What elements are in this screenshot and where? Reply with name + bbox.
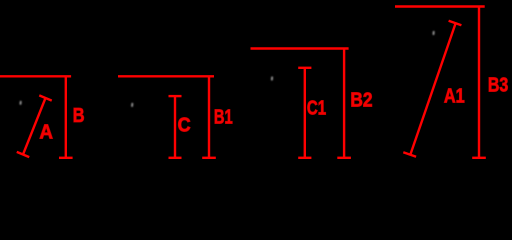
wire bottom cap of C [169,157,182,159]
svg-text:C1: C1 [307,98,326,120]
svg-text:B3: B3 [488,75,508,97]
wire vertical segment C1 [304,68,306,158]
svg-text:C: C [178,115,191,137]
node mark 4 [432,31,434,35]
wire top cap of C [169,95,182,97]
svg-text:B1: B1 [214,107,233,129]
wire bottom cap of C1 [298,157,311,159]
wire horizontal line H4 [395,5,485,7]
wire bottom cap of B [59,157,73,159]
svg-text:B2: B2 [350,90,372,112]
wire vertical line of B2 [343,49,345,158]
wire horizontal line H3 [251,47,349,49]
wire top cap of A1 [449,21,462,25]
wire top cap of A [39,95,52,100]
wire vertical segment C [174,96,176,158]
wire vertical line of B1 [208,76,210,158]
node mark 2 [131,103,133,107]
wire horizontal line H2 [118,75,214,77]
wire bottom cap of B2 [337,157,351,159]
node mark 3 [271,76,273,80]
svg-text:A: A [39,122,53,144]
svg-text:B: B [73,105,85,127]
wire bottom cap of B3 [472,157,486,159]
wire slanted segment A [23,98,46,155]
wire bottom cap of A [17,152,30,157]
wire horizontal line H1 [0,75,71,77]
wire top cap of C1 [298,67,311,69]
wire slanted segment A1 [410,23,455,155]
wire bottom cap of B1 [202,157,216,159]
wire vertical line of B3 [478,7,480,158]
wire vertical line of B [65,76,67,158]
node mark 1 [19,101,21,105]
svg-text:A1: A1 [444,86,465,108]
wire bottom cap of A1 [403,152,416,156]
